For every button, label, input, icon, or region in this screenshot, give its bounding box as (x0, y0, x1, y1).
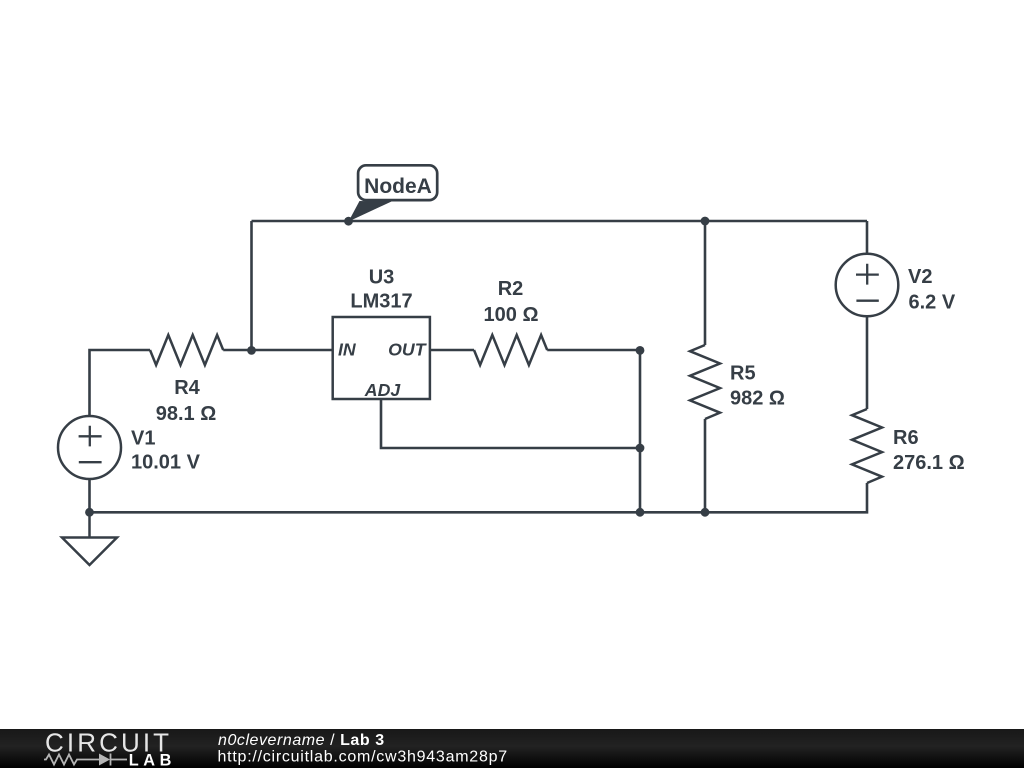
svg-text:982 Ω: 982 Ω (730, 388, 785, 410)
svg-text:NodeA: NodeA (364, 175, 432, 198)
node A label bubble (349, 165, 438, 221)
wire V2 top pin (866, 221, 869, 255)
node junction R2 out (636, 346, 645, 355)
svg-text:n0clevername / Lab 3: n0clevername / Lab 3 (218, 732, 385, 749)
wire mid riser (639, 350, 642, 512)
svg-text:R2: R2 (498, 278, 524, 300)
wire V1 top lead to R4 (90, 350, 151, 417)
resistor R4 (150, 335, 223, 425)
resistor R6 (852, 409, 965, 483)
svg-text:6.2 V: 6.2 V (909, 292, 956, 314)
svg-text:http://circuitlab.com/cw3h943a: http://circuitlab.com/cw3h943am28p7 (218, 748, 508, 765)
svg-text:R5: R5 (730, 363, 756, 385)
svg-text:276.1 Ω: 276.1 Ω (893, 452, 965, 474)
svg-text:R6: R6 (893, 427, 919, 449)
wire V2 bottom to R6 (866, 316, 869, 409)
CircuitLab logo resistor-diode symbol (44, 754, 127, 766)
svg-text:V2: V2 (908, 266, 932, 288)
resistor R2 (474, 278, 547, 365)
node junction R5 bottom (701, 508, 710, 517)
svg-text:IN: IN (338, 339, 357, 359)
wire bottom rail (90, 483, 868, 512)
node junction R4 / riser (247, 346, 256, 355)
op-amp U3 (LM317 regulator box) (333, 267, 430, 401)
node junction V1 bottom (85, 508, 94, 517)
wire riser from R4 node to top rail (250, 221, 253, 350)
wire R5 bottom pin (704, 419, 707, 512)
resistor R5 (690, 345, 785, 419)
node junction ADJ (636, 444, 645, 453)
svg-text:LM317: LM317 (350, 291, 412, 313)
voltage source V1 (58, 416, 201, 479)
ground (62, 512, 117, 565)
wire R5 top pin (704, 221, 707, 345)
node junction mid riser bottom (636, 508, 645, 517)
wire top rail (252, 220, 868, 223)
svg-text:98.1 Ω: 98.1 Ω (156, 403, 217, 425)
wire V1 bottom pin (88, 479, 91, 512)
svg-text:100 Ω: 100 Ω (484, 304, 539, 326)
footer bar (0, 729, 1024, 768)
svg-text:ADJ: ADJ (364, 380, 402, 400)
svg-text:R4: R4 (174, 377, 200, 399)
wire ADJ pin to mid riser (381, 399, 640, 448)
wire R2 to mid riser (547, 349, 640, 352)
voltage source V2 (836, 254, 956, 317)
wire U3 OUT to R2 (430, 349, 474, 352)
node A dot (344, 217, 353, 226)
svg-text:V1: V1 (131, 428, 155, 450)
svg-text:10.01 V: 10.01 V (131, 452, 201, 474)
svg-text:LAB: LAB (129, 751, 176, 768)
wire R4 to U3 IN (223, 349, 333, 352)
node junction top rail / R5 (701, 217, 710, 226)
svg-text:U3: U3 (369, 267, 395, 289)
svg-text:OUT: OUT (388, 339, 428, 359)
